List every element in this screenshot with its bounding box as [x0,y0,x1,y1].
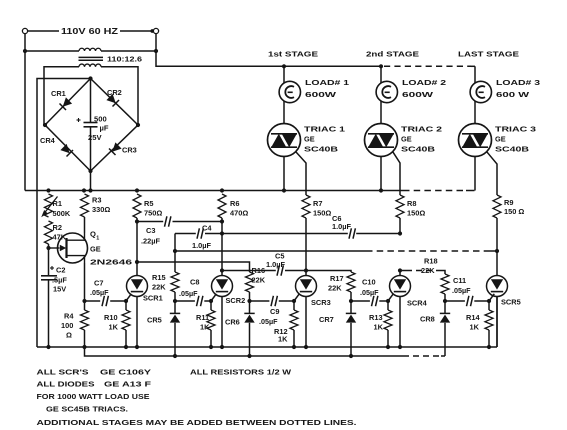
wire load 3 to triac [474,101,476,124]
svg-text:600W: 600W [402,90,433,99]
svg-text:C7: C7 [94,279,103,288]
svg-text:R7: R7 [313,199,322,208]
capacitor C7 .05uF [85,279,127,307]
diode CR7 [319,301,356,356]
AC terminal left [22,28,27,53]
svg-text:SCR1: SCR1 [143,294,163,303]
wire SCR1 anode to R16 [137,262,250,272]
svg-text:ALL DIODES: ALL DIODES [37,380,95,389]
svg-text:C8: C8 [190,278,199,287]
svg-text:1.0µF: 1.0µF [332,222,352,231]
wire R6 column [220,218,224,275]
svg-text:GE A13 F: GE A13 F [104,380,152,389]
svg-text:1K: 1K [470,323,480,332]
wire bridge arm bottom-left [45,125,91,171]
wire SCR5 cathode corner [496,297,498,348]
label LAST STAGE [458,50,519,59]
svg-text:R9: R9 [504,198,513,207]
wire SCR1 anode [136,262,138,275]
wire C2 to bottom bus [46,280,50,349]
diode CR1 [51,89,72,110]
wire R9 to SCR5 anode [496,218,498,251]
lamp LOAD#1 [279,81,300,102]
svg-text:2nd STAGE: 2nd STAGE [366,50,419,59]
svg-text:R2: R2 [53,223,62,232]
note all diodes [37,380,152,389]
svg-text:R11: R11 [196,313,209,322]
wire ring line [85,347,404,356]
svg-text:R14: R14 [466,313,480,322]
capacitor C10 .05uF [351,278,388,307]
svg-text:ALL RESISTORS 1/2 W: ALL RESISTORS 1/2 W [190,368,291,377]
wire main bus [25,190,403,192]
svg-text:1K: 1K [109,323,119,332]
svg-text:1.0µF: 1.0µF [266,260,286,269]
wire SCR4 anode [399,271,401,276]
node SCR1 anode [135,260,139,264]
svg-text:1K: 1K [278,335,288,344]
svg-text:SCR5: SCR5 [501,298,521,307]
resistor R9 150 [493,195,524,218]
diode CR8 [420,301,450,356]
wire SCR1 gate lead [126,294,131,301]
svg-text:22K: 22K [421,266,435,275]
svg-text:TRIAC 2: TRIAC 2 [401,125,442,134]
svg-text:500: 500 [94,115,107,124]
capacitor C11 .05uF [445,276,489,306]
svg-text:CR6: CR6 [225,318,240,327]
svg-text:SCR3: SCR3 [311,298,331,307]
AC terminal right [150,28,158,53]
wire SCR4 cathode [398,297,402,350]
capacitor C4 1.0uF [192,224,212,251]
resistor R4 100 [61,301,89,349]
label LOAD#2 [402,78,446,99]
wire ring line end [441,355,445,357]
wire load 2 top lead [380,66,382,83]
svg-text:ADDITIONAL STAGES MAY BE ADDED: ADDITIONAL STAGES MAY BE ADDED BETWEEN D… [37,418,357,427]
node SCR4 anode [398,268,402,272]
svg-text:CR7: CR7 [319,315,334,324]
label TRIAC 2 [401,125,442,154]
svg-text:R5: R5 [144,199,153,208]
svg-text:.05µF: .05µF [360,288,379,297]
wire R8 to line B [399,218,401,234]
wire bridge top to bottom bus [37,79,91,348]
wire gate lead 222 [211,294,216,301]
thyristor SCR2 [212,276,246,306]
wire gate lead 400 [388,294,393,301]
capacitor C5 1.0uF [222,252,306,276]
wire bridge arm bottom-right [91,125,139,171]
svg-text:FOR 1000 WATT LOAD USE: FOR 1000 WATT LOAD USE [37,392,150,401]
node SCR2 anode [220,268,224,272]
diode CR2 [106,88,121,107]
wire R16 bottom [247,292,251,303]
svg-text:CR5: CR5 [147,316,162,325]
node SCR3 anode [304,268,308,272]
wire SCR1 cathode [135,297,139,350]
svg-text:600W: 600W [305,90,336,99]
svg-text:1: 1 [96,236,99,242]
label 110V 60 HZ [28,27,151,36]
svg-text:GE: GE [304,135,315,144]
svg-text:.05µF: .05µF [179,289,198,298]
svg-text:100: 100 [61,321,73,330]
capacitor C8 .05uF [175,278,211,307]
wire triac 3 to bus [474,157,476,191]
label 1st STAGE [268,50,318,59]
wire load 2 to triac [380,101,382,124]
svg-text:.05µF: .05µF [452,286,471,295]
svg-text:R15: R15 [152,273,166,282]
wire R2 to C2 [46,244,50,276]
wire R15 top [173,234,177,273]
label TRIAC 3 [495,125,536,154]
capacitor C-filter 500uF [77,115,109,143]
node R1 top [46,188,50,192]
wire bridge cap bottom [90,127,92,171]
label 110:12.6 [107,55,142,64]
svg-text:CR2: CR2 [107,88,122,97]
node bridge top [88,76,92,80]
wire R5 column [135,218,139,262]
svg-text:TRIAC 1: TRIAC 1 [304,125,345,134]
label LOAD#3 [496,78,540,99]
wire line B right [356,231,402,235]
svg-text:22K: 22K [328,284,342,293]
resistor R18 22K [421,257,449,295]
svg-text:CR1: CR1 [51,89,66,98]
svg-text:CR4: CR4 [40,136,56,145]
resistor R6 470 [218,188,248,218]
wire secondary right to bridge [101,67,138,125]
wire triac 2 to bus [379,157,383,193]
resistor R1 500K pot [41,194,71,218]
svg-text:LAST STAGE: LAST STAGE [458,50,519,59]
wire triac 1 to bus [282,157,286,193]
svg-text:SC40B: SC40B [495,145,529,154]
svg-text:R13: R13 [369,313,383,322]
svg-text:CR8: CR8 [420,315,435,324]
svg-text:Q: Q [90,230,96,239]
svg-text:C2: C2 [56,266,65,275]
resistor R7 150 [302,195,331,218]
svg-text:470Ω: 470Ω [230,209,248,218]
svg-text:GE SC45B TRIACS.: GE SC45B TRIACS. [46,405,128,414]
svg-text:.05µF: .05µF [90,288,109,297]
svg-text:22K: 22K [152,283,166,292]
resistor R8 150 [396,195,425,218]
svg-text:SC40B: SC40B [401,145,435,154]
note additional stages [37,418,357,427]
wire SCR5 anode [496,251,498,275]
svg-text:110V 60 HZ: 110V 60 HZ [61,27,118,36]
wire R7 to SCR3 anode [305,218,307,271]
wire load 1 to triac [283,101,285,124]
svg-text:C10: C10 [362,278,376,287]
wire R15 bottom [173,292,177,303]
svg-text:1K: 1K [200,323,210,332]
wire bridge arm top-right [91,79,139,126]
svg-text:.05µF: .05µF [259,317,278,326]
wire right rail to stage bus [156,51,381,66]
wire R17 bottom [349,292,353,303]
thyristor SCR5 [487,276,521,307]
svg-text:LOAD# 3: LOAD# 3 [496,78,540,87]
diode CR5 [147,301,180,356]
node stage1 top [282,64,286,68]
wire gate lead 497 [489,294,494,301]
diode CR4 [40,136,73,157]
note all scrs [37,368,292,377]
svg-text:15V: 15V [53,285,66,294]
wire SCR3 anode to R17 [306,271,351,273]
label TRIAC 1 [304,125,345,154]
wire SCR2 cathode [220,297,224,350]
note sc45b [46,405,128,414]
wire gate lead 306 [294,294,299,301]
lamp LOAD#2 [376,81,397,102]
note 1000 watt [37,392,150,401]
svg-text:1st STAGE: 1st STAGE [268,50,318,59]
svg-text:R10: R10 [104,313,118,322]
resistor R17 22K [328,272,355,293]
node CR5 bottom [173,354,177,358]
svg-text:GE: GE [401,135,412,144]
capacitor C3 .22uF [137,216,222,245]
node 11 gate [209,299,213,303]
svg-text:110:12.6: 110:12.6 [107,55,142,64]
svg-text:1.0µF: 1.0µF [192,241,212,250]
wire triac1 gate [296,152,306,195]
capacitor C6 1.0uF [332,214,355,239]
svg-text:Ω: Ω [66,331,72,340]
wire main bus right end [466,190,475,192]
svg-text:C9: C9 [270,307,279,316]
triac TRIAC 1 [268,124,301,157]
wire R18 bottom [443,294,447,303]
svg-text:22K: 22K [252,276,266,285]
transistor Q1 2N2646 [49,230,133,267]
svg-text:ALL SCR'S: ALL SCR'S [37,368,89,377]
resistor R13 1K [369,301,392,349]
svg-text:GE: GE [90,245,101,254]
wire SCR4 to R18 dashed [400,271,445,275]
wire line C dashed [366,250,489,252]
wire load 1 top lead [283,66,285,83]
wire bottom bus [37,346,497,348]
triac TRIAC 2 [365,124,398,157]
svg-text:750Ω: 750Ω [144,209,162,218]
svg-text:330Ω: 330Ω [92,205,110,214]
svg-text:500K: 500K [53,209,71,218]
node 14 gate [487,299,491,303]
svg-text:R4: R4 [64,312,74,321]
wire bridge cap top [90,79,92,123]
wire left rail [24,51,26,191]
svg-text:.22µF: .22µF [141,237,161,246]
node SCR1 gate [124,299,128,303]
thyristor SCR1 [127,276,163,303]
node 12 gate [292,299,296,303]
wire SCR3 cathode [304,297,308,350]
wire bridge bottom to bus [88,171,92,193]
resistor R15 22K [152,272,179,292]
thyristor SCR3 [296,276,331,308]
diode CR6 [225,301,255,356]
capacitor C2 [41,266,67,294]
node 13 gate [386,299,390,303]
resistor R2 47K [45,221,67,244]
triac TRIAC 3 [459,124,492,157]
wire Q1 B1 down [82,263,86,303]
svg-text:LOAD# 1: LOAD# 1 [305,78,349,87]
thyristor SCR4 [390,276,428,308]
wire SCR3 anode [305,271,307,276]
svg-text:GE: GE [495,135,506,144]
svg-text:R3: R3 [92,196,101,205]
svg-text:GE C106Y: GE C106Y [100,368,151,377]
label 2nd STAGE [366,50,419,59]
node CR7 bottom [349,354,353,358]
transformer T1 secondary [79,64,101,67]
resistor R10 1K [104,301,130,349]
svg-text:.5µF: .5µF [52,276,67,285]
svg-text:R8: R8 [407,199,416,208]
wire triac3 gate [487,152,497,195]
resistor R12 1K [274,301,298,349]
label LOAD#1 [305,78,349,99]
node bridge right [136,123,140,127]
svg-text:SCR4: SCR4 [407,299,428,308]
resistor R5 750 [133,188,162,218]
svg-text:150Ω: 150Ω [313,209,331,218]
wire triac2 gate [393,152,400,195]
wire bridge arm top-left [45,79,91,126]
wire secondary left to bridge [44,67,79,125]
capacitor C9 .05uF [250,296,295,326]
svg-text:LOAD# 2: LOAD# 2 [402,78,446,87]
transformer T1 core [79,57,104,60]
svg-text:C11: C11 [453,276,466,285]
svg-text:C3: C3 [146,226,155,235]
svg-text:TRIAC 3: TRIAC 3 [495,125,536,134]
wire SCR5 cathode [496,297,498,348]
wire stage bus dashed [384,65,471,67]
resistor R16 22K [246,266,266,292]
svg-text:2N2646: 2N2646 [90,258,132,267]
wire stage bus last corner [471,65,475,67]
svg-text:1K: 1K [374,323,384,332]
node bridge left [43,123,47,127]
svg-text:C4: C4 [202,224,212,233]
svg-text:SCR2: SCR2 [226,296,246,305]
diode CR3 [109,142,137,155]
svg-text:SC40B: SC40B [304,145,338,154]
svg-text:R18: R18 [424,257,438,266]
wire ring line dashed [403,355,441,357]
resistor R11 1K [196,301,215,349]
wire line C solid [175,250,366,252]
lamp LOAD#3 [470,81,491,102]
svg-text:µF: µF [100,124,109,133]
svg-text:150Ω: 150Ω [407,209,425,218]
svg-text:R1: R1 [53,199,62,208]
wire line C end [489,249,499,253]
node stage2 top [379,64,383,68]
wire line B left [175,233,196,235]
svg-text:150 Ω: 150 Ω [504,207,524,216]
svg-text:CR3: CR3 [122,146,137,155]
svg-text:600 W: 600 W [496,90,529,99]
wire load 3 top lead [474,66,476,83]
wire main bus dashed [403,190,466,192]
wire line B mid [205,233,348,235]
transformer T1 primary [25,48,156,51]
resistor R14 1K [466,301,493,349]
svg-text:R17: R17 [330,274,344,283]
svg-text:R6: R6 [230,199,239,208]
resistor R3 330 [81,188,111,233]
node CR6 bottom [247,354,251,358]
node bridge bottom [88,169,92,173]
